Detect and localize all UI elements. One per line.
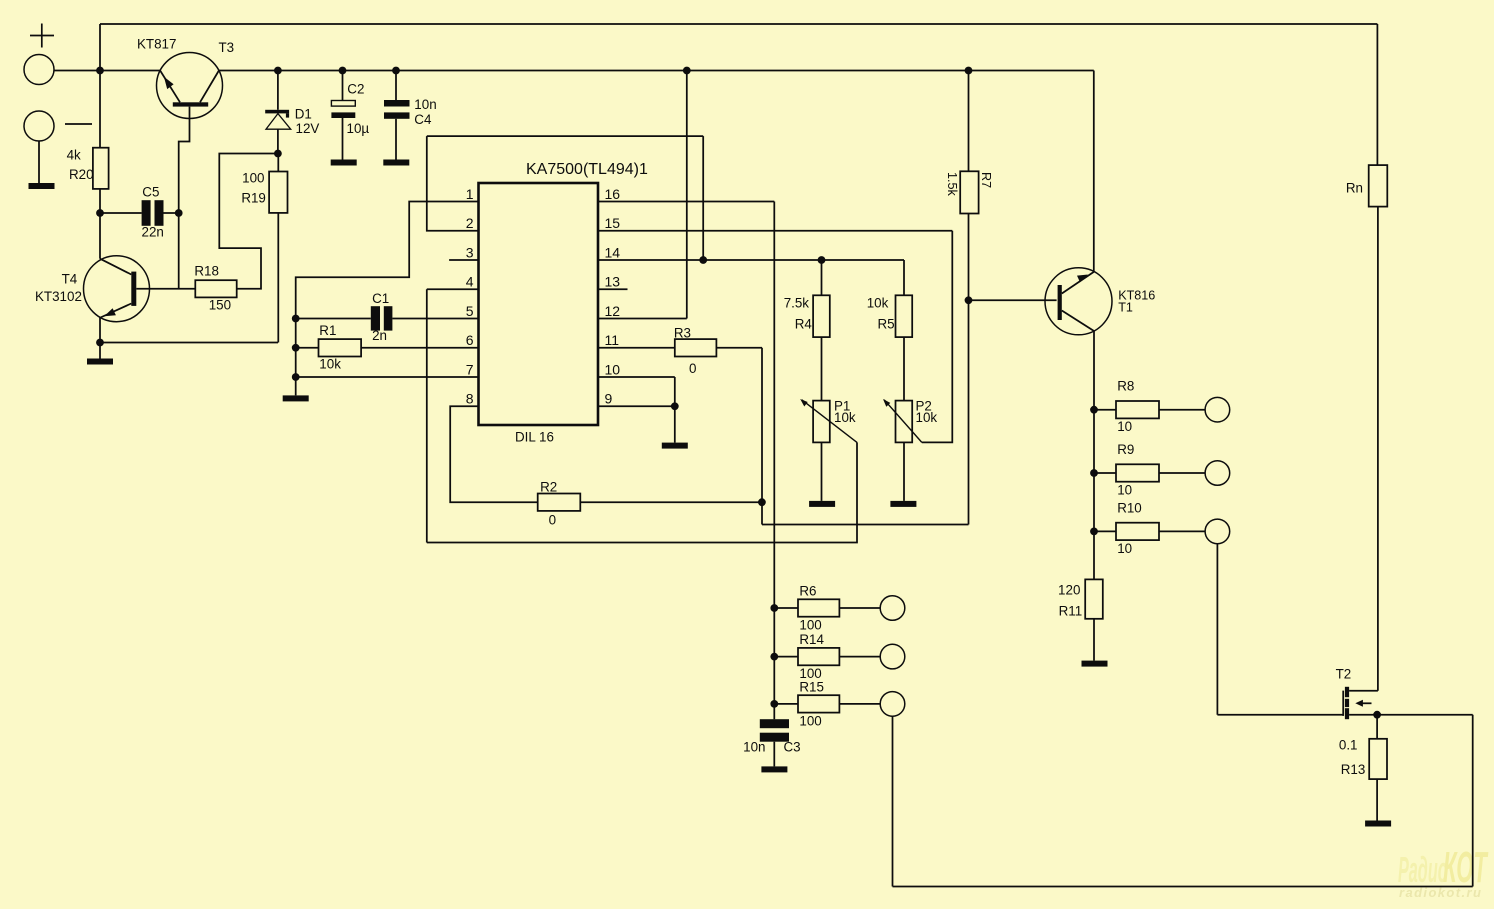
diode D1 zener 12V — [265, 107, 319, 137]
wire — [1093, 619, 1095, 661]
wire main rail — [219, 70, 1094, 72]
resistor R13 0.1 — [1339, 738, 1387, 780]
junction R9 — [1090, 469, 1098, 477]
svg-text:2n: 2n — [372, 328, 387, 343]
svg-text:100: 100 — [799, 713, 821, 728]
capacitor C5 22n — [142, 185, 164, 240]
svg-text:7: 7 — [466, 361, 474, 377]
wire — [839, 703, 880, 705]
ground C2 — [331, 160, 357, 166]
svg-text:R3: R3 — [674, 326, 691, 341]
wire C1 to pin5 — [392, 318, 478, 320]
wire pin12 up to rail — [686, 71, 688, 319]
svg-text:12V: 12V — [296, 121, 320, 136]
wire pin2 up to top loop — [427, 136, 479, 231]
svg-text:3: 3 — [466, 244, 474, 260]
junction — [274, 67, 282, 75]
svg-text:4k: 4k — [67, 148, 81, 163]
svg-text:R18: R18 — [194, 264, 219, 279]
svg-text:10k: 10k — [319, 356, 341, 371]
svg-text:15: 15 — [605, 215, 621, 231]
wire bottom return — [893, 886, 1473, 888]
svg-text:100: 100 — [242, 171, 264, 186]
wire — [903, 442, 905, 501]
wire R7 to T1 base node — [968, 214, 970, 301]
transistor T2 MOSFET — [1336, 667, 1378, 720]
ground C3 — [761, 766, 787, 772]
junction — [392, 67, 400, 75]
junction — [758, 498, 766, 506]
wire T4 emitter to R19 — [100, 342, 278, 344]
svg-text:R20: R20 — [69, 167, 94, 182]
capacitor C3 10n — [743, 719, 800, 754]
wire T4 emitter down — [99, 318, 101, 343]
svg-text:KT3102: KT3102 — [35, 289, 82, 304]
wire — [1159, 409, 1205, 411]
junction — [671, 402, 679, 410]
junction — [175, 209, 183, 217]
resistor R7 1.5k — [945, 171, 993, 213]
svg-text:150: 150 — [209, 298, 231, 313]
wire rail to R7 — [968, 71, 970, 172]
ground minus terminal — [29, 183, 55, 189]
svg-text:R13: R13 — [1341, 762, 1366, 777]
svg-text:9: 9 — [605, 391, 613, 407]
wire right return up — [1472, 715, 1474, 887]
junction — [292, 315, 300, 323]
wire to Rn — [1376, 24, 1378, 165]
svg-text:22n: 22n — [142, 225, 164, 240]
transistor T3 KT817 — [137, 37, 234, 119]
wire — [342, 71, 344, 101]
junction — [699, 256, 707, 264]
wire — [839, 607, 880, 609]
svg-text:10: 10 — [605, 361, 621, 377]
svg-text:0: 0 — [549, 513, 556, 528]
svg-text:T4: T4 — [62, 272, 78, 287]
junction R15 — [770, 700, 778, 708]
svg-text:7.5k: 7.5k — [784, 296, 810, 311]
svg-text:10: 10 — [1117, 482, 1132, 497]
ground R11 — [1082, 661, 1108, 667]
svg-text:10k: 10k — [867, 296, 889, 311]
resistor R8 10 — [1116, 379, 1159, 434]
wire — [774, 656, 798, 658]
wire — [821, 442, 823, 501]
wire pin10 — [598, 376, 675, 378]
wire pin7 — [296, 376, 479, 378]
junction — [1373, 711, 1381, 719]
svg-text:0.1: 0.1 — [1339, 738, 1358, 753]
junction — [965, 67, 973, 75]
wire — [774, 703, 798, 705]
junction — [683, 67, 691, 75]
wire T1 emitter drop — [1093, 71, 1095, 272]
junction R6 — [770, 604, 778, 612]
svg-text:D1: D1 — [295, 107, 312, 122]
wire across to T1 base node — [762, 524, 969, 526]
wire R1 to pin6 — [361, 347, 478, 349]
svg-text:0: 0 — [689, 361, 696, 376]
transistor T1 KT816 — [1045, 268, 1155, 335]
wire — [1159, 472, 1205, 474]
svg-text:13: 13 — [605, 274, 621, 290]
junction — [292, 373, 300, 381]
junction — [96, 339, 104, 347]
svg-text:R4: R4 — [795, 317, 813, 332]
wire R5 to P2 — [903, 337, 905, 401]
svg-text:4: 4 — [466, 274, 474, 290]
wire top loop — [427, 135, 703, 137]
junction — [292, 344, 300, 352]
wire main rail left — [54, 70, 160, 72]
wire — [277, 71, 279, 110]
wire pin15 to P2 wiper — [922, 231, 953, 443]
capacitor C1 2n — [371, 291, 393, 343]
svg-text:R2: R2 — [540, 480, 557, 495]
svg-text:C2: C2 — [347, 82, 364, 97]
ground input column — [283, 395, 309, 401]
wire — [99, 24, 101, 71]
svg-text:C1: C1 — [372, 291, 389, 306]
terminal R15 output — [880, 692, 905, 717]
wire — [38, 141, 40, 183]
svg-text:Радио: Радио — [1398, 850, 1448, 890]
svg-text:100: 100 — [799, 618, 821, 633]
svg-text:R10: R10 — [1117, 500, 1142, 515]
ground T4 emitter — [87, 359, 113, 365]
junction pin14-R4 — [818, 256, 826, 264]
svg-text:R7: R7 — [979, 172, 993, 188]
wire T3 base to T4 node — [179, 107, 190, 289]
wire — [1094, 530, 1116, 532]
resistor R1 10k — [319, 323, 362, 371]
wire pin11 to R3 — [598, 347, 675, 349]
wire R19 bottom — [277, 213, 279, 343]
wire down to pin14 line — [702, 136, 704, 260]
svg-text:11: 11 — [605, 332, 620, 348]
wire T4 collector up — [99, 213, 101, 259]
svg-text:120: 120 — [1058, 583, 1080, 598]
wire pin8 down to R2 — [450, 406, 538, 502]
svg-text:5: 5 — [466, 303, 474, 319]
wire — [1376, 779, 1378, 820]
wire — [164, 212, 179, 214]
svg-text:KA7500(TL494)1: KA7500(TL494)1 — [526, 161, 648, 178]
svg-text:R15: R15 — [799, 680, 824, 695]
svg-text:10k: 10k — [916, 410, 938, 425]
wire — [99, 71, 101, 148]
potentiometer P2 10k — [883, 399, 937, 443]
resistor R18 150 — [194, 264, 236, 313]
wire — [99, 189, 101, 213]
wire pin16 — [598, 201, 774, 203]
svg-text:1: 1 — [466, 186, 474, 202]
ground P1 — [809, 501, 835, 507]
svg-text:C3: C3 — [784, 740, 801, 755]
resistor R5 10k — [867, 295, 912, 337]
resistor R19 100 — [241, 171, 287, 213]
resistor R15 100 — [798, 680, 839, 729]
svg-text:10: 10 — [1117, 541, 1132, 556]
svg-text:2: 2 — [466, 215, 474, 231]
svg-text:C5: C5 — [142, 185, 159, 200]
wire — [1159, 530, 1205, 532]
wire — [99, 343, 101, 359]
svg-text:KT817: KT817 — [137, 37, 176, 52]
capacitor C2 10u electrolytic — [331, 82, 369, 137]
wire pin12 — [598, 318, 687, 320]
terminal R6 output — [880, 596, 905, 621]
wire T1 base node down — [968, 300, 970, 524]
svg-text:12: 12 — [605, 303, 621, 319]
junction — [96, 209, 104, 217]
watermark Radio KOT — [1398, 844, 1489, 900]
ground P2 — [890, 501, 916, 507]
wire — [342, 118, 344, 160]
wire — [1376, 715, 1378, 739]
wire — [395, 71, 397, 101]
resistor Rn load — [1346, 165, 1387, 207]
terminal R9 output — [1205, 461, 1230, 486]
wire — [773, 742, 775, 767]
svg-text:DIL 16: DIL 16 — [515, 430, 554, 445]
wire pin4 vertical to P1 wiper loop — [426, 289, 428, 542]
wire pin16 vertical to C3 node — [773, 202, 775, 720]
svg-text:10n: 10n — [743, 740, 765, 755]
resistor R14 100 — [798, 632, 839, 681]
junction — [274, 150, 282, 158]
wire to T1 base — [969, 299, 1057, 301]
wire pin14 — [598, 259, 904, 261]
wire — [1094, 409, 1116, 411]
resistor R6 100 — [798, 584, 839, 633]
ground R13 — [1365, 821, 1391, 827]
wire R10 terminal down to T2 gate — [1216, 544, 1218, 715]
wire — [296, 318, 371, 320]
wire pin1 to ground column — [296, 202, 479, 396]
resistor R4 7.5k — [784, 295, 830, 337]
svg-text:T3: T3 — [219, 40, 235, 55]
wire — [674, 377, 676, 406]
wire P1 wiper loop to pin4 — [427, 442, 857, 542]
wire T4 base to R18 — [136, 288, 195, 290]
wire — [395, 119, 397, 160]
resistor R3 0 — [674, 326, 716, 377]
svg-text:R1: R1 — [319, 323, 336, 338]
svg-text:R11: R11 — [1059, 604, 1083, 619]
capacitor C4 10n — [384, 97, 437, 127]
potentiometer P1 10k — [800, 399, 857, 443]
svg-text:Rn: Rn — [1346, 181, 1363, 196]
terminal - input — [24, 111, 92, 141]
wire — [277, 154, 279, 172]
wire — [716, 347, 762, 349]
svg-text:R19: R19 — [241, 191, 266, 206]
wire R2 to node — [580, 501, 762, 503]
wire — [839, 656, 880, 658]
svg-text:R14: R14 — [799, 632, 824, 647]
wire R18 to D1 node — [219, 154, 278, 289]
wire gate lead — [1217, 714, 1343, 716]
wire R15 terminal down — [892, 716, 894, 886]
wire R4 to P1 — [821, 337, 823, 401]
wire pin15 — [598, 230, 952, 232]
wire — [774, 607, 798, 609]
svg-text:1.5k: 1.5k — [945, 172, 959, 197]
resistor R20 4k — [67, 148, 109, 189]
wire — [821, 260, 823, 295]
svg-text:R6: R6 — [799, 584, 816, 599]
wire — [100, 212, 142, 214]
svg-text:R9: R9 — [1117, 442, 1134, 457]
wire pin4 — [427, 288, 479, 290]
junction — [965, 296, 973, 304]
wire — [296, 347, 319, 349]
svg-text:8: 8 — [466, 391, 474, 407]
resistor R9 10 — [1116, 442, 1159, 497]
svg-text:R8: R8 — [1117, 379, 1134, 394]
wire pin3 stub — [449, 259, 478, 261]
wire — [1094, 472, 1116, 474]
terminal R10 output — [1205, 519, 1230, 544]
wire — [277, 129, 279, 153]
svg-text:16: 16 — [605, 186, 621, 202]
svg-text:10n: 10n — [414, 97, 436, 112]
svg-text:C4: C4 — [414, 112, 432, 127]
resistor R2 0 — [538, 480, 581, 528]
wire into R5 — [903, 260, 905, 295]
svg-text:T2: T2 — [1336, 667, 1352, 682]
junction — [339, 67, 347, 75]
svg-text:14: 14 — [605, 244, 621, 260]
terminal R14 output — [880, 644, 905, 669]
terminal R8 output — [1205, 397, 1230, 422]
junction R10 — [1090, 528, 1098, 536]
wire — [674, 406, 676, 442]
wire R3 node down — [761, 348, 763, 525]
svg-text:10: 10 — [1117, 419, 1132, 434]
wire T2 drain up to Rn — [1377, 207, 1379, 691]
svg-text:R5: R5 — [877, 317, 894, 332]
ground pin9 — [662, 443, 688, 449]
svg-text:T1: T1 — [1118, 301, 1133, 315]
resistor R10 10 — [1116, 500, 1159, 555]
junction R14 — [770, 653, 778, 661]
wire top rail — [100, 23, 1377, 25]
junction — [96, 67, 104, 75]
junction R8 — [1090, 406, 1098, 414]
wire pin9 — [598, 405, 675, 407]
op-amp U1 KA7500(TL494) DIL16 body — [479, 161, 648, 445]
svg-text:6: 6 — [466, 332, 474, 348]
transistor T4 KT3102 — [35, 256, 150, 322]
wire pin13 stub — [598, 288, 628, 290]
svg-text:10k: 10k — [834, 410, 856, 425]
wire T1 collector down to R11 — [1093, 331, 1095, 579]
resistor R11 120 — [1058, 579, 1103, 618]
terminal + input — [24, 24, 54, 85]
wire — [1377, 714, 1473, 716]
svg-text:10µ: 10µ — [347, 121, 370, 136]
ground C4 — [383, 160, 409, 166]
